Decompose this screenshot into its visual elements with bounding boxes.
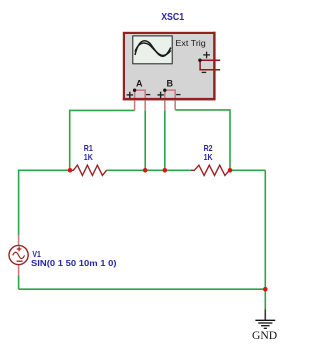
- channel A minus marker: [146, 94, 150, 96]
- channel B plus marker: [157, 92, 163, 98]
- pin B+ stub: [164, 90, 166, 110]
- wire bottom net (ground rail): [19, 288, 266, 290]
- pin A+ stub: [134, 90, 136, 110]
- svg-text:SIN(0 1 50 10m 1 0): SIN(0 1 50 10m 1 0): [31, 258, 117, 268]
- svg-text:1K: 1K: [204, 152, 214, 162]
- wire scope A+ to node at R1 left: [70, 110, 135, 170]
- channel A pin dot: [133, 89, 136, 92]
- pin A- stub: [135, 90, 146, 111]
- scope bottom border redraw over stubs: [123, 98, 215, 100]
- Ext Trig minus marker: [202, 71, 207, 73]
- source V1 AC symbol: [9, 245, 28, 264]
- Ext Trig pin dot: [198, 59, 201, 62]
- pin Ext Trig - stub: [200, 60, 220, 70]
- junction node R2 right: [228, 168, 233, 173]
- svg-text:XSC1: XSC1: [161, 12, 184, 23]
- pin Ext Trig + stub: [200, 59, 220, 61]
- svg-text:Ext Trig: Ext Trig: [175, 38, 206, 48]
- source V1 bottom pin stub: [18, 265, 20, 276]
- svg-text:1K: 1K: [84, 152, 94, 162]
- source V1 top pin stub: [18, 235, 20, 246]
- scope right border redraw over trig stubs: [213, 32, 215, 100]
- svg-text:B: B: [167, 79, 174, 89]
- channel B pin dot: [163, 89, 166, 92]
- channel A plus marker: [127, 92, 133, 98]
- channel B minus marker: [176, 94, 180, 96]
- wire scope A- riser to middle node: [144, 111, 146, 171]
- wire R1 right to R2 left (middle segment through probe nodes): [107, 169, 191, 171]
- wire scope B- to node at R2 right: [175, 110, 230, 170]
- resistor R1: [70, 165, 107, 175]
- wire net V1+ to R1 left (left riser and top horizontal): [19, 170, 70, 235]
- oscilloscope U1 XSC1 body: [124, 33, 214, 99]
- resistor R2: [191, 165, 230, 175]
- scope screen with sine trace: [133, 36, 172, 64]
- wire R2 right node to right corner: [230, 169, 266, 171]
- junction node ground corner: [263, 287, 268, 292]
- junction node R1 left: [68, 168, 73, 173]
- wire V1- riser: [18, 275, 20, 289]
- wire right riser down to bottom net: [264, 170, 266, 289]
- pin B- stub: [165, 90, 175, 110]
- ground symbol: [255, 309, 275, 328]
- wire scope B+ riser to middle node: [164, 110, 166, 170]
- junction node A- probe: [143, 168, 148, 173]
- junction node B+ probe: [163, 168, 168, 173]
- svg-text:A: A: [136, 79, 143, 89]
- wire ground branch: [264, 289, 266, 309]
- svg-text:GND: GND: [252, 330, 277, 342]
- Ext Trig plus marker: [203, 52, 210, 59]
